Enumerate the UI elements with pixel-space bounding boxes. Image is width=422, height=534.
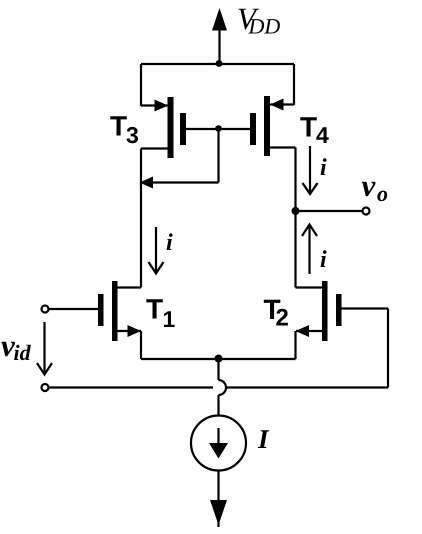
terminal vid bottom: [42, 384, 49, 391]
wire bottom rail left: [49, 386, 214, 388]
label VDD: [239, 9, 280, 34]
wire left rail drop: [140, 64, 142, 106]
transistor T2: [296, 281, 389, 359]
label i lower right: [321, 250, 327, 267]
wire diode connection down: [217, 129, 219, 183]
label i left: [167, 233, 173, 250]
node output: [292, 207, 300, 215]
label vo: [362, 182, 387, 201]
label T2: [264, 300, 288, 326]
node top rail junction: [216, 60, 223, 67]
wire T4 drain down: [294, 148, 296, 212]
wire output to terminal: [296, 210, 363, 212]
wire left branch vertical: [140, 149, 142, 288]
wire right rail drop: [293, 64, 295, 105]
label T4: [300, 117, 328, 143]
wire below current source: [217, 471, 219, 504]
wire output node down: [294, 211, 296, 288]
wire bottom rail right: [227, 386, 389, 388]
wire tail down: [217, 359, 219, 380]
arrow vid: [37, 322, 52, 375]
label T1: [146, 299, 174, 327]
current arrow i up (T2 drain): [302, 225, 317, 275]
wire diode connection left with arrow: [140, 177, 219, 189]
wire top rail: [141, 63, 294, 65]
node common source: [215, 355, 223, 363]
terminal vo: [363, 208, 370, 215]
label vid: [1, 342, 31, 360]
current source I: [191, 416, 246, 471]
VDD supply arrow: [212, 8, 227, 64]
transistor T4: [250, 96, 296, 156]
label T3: [110, 116, 138, 143]
current arrow i left: [149, 227, 164, 274]
transistor T3: [141, 97, 186, 158]
current arrow i down (T4 drain): [303, 146, 318, 194]
node gate junction: [215, 125, 222, 132]
wire T2 gate drop: [387, 309, 389, 388]
label i upper right: [321, 158, 327, 175]
label I: [258, 430, 270, 448]
negative supply arrow: [210, 500, 227, 525]
wire common source rail: [141, 358, 296, 360]
wire hop over bottom rail: [219, 380, 227, 395]
terminal vid top: [42, 306, 49, 313]
wire tail below hop: [217, 395, 219, 416]
transistor T1: [49, 281, 142, 359]
wire T3/T4 gate link: [186, 128, 250, 130]
